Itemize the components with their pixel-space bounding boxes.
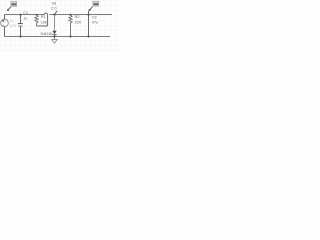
junction bottom of D1 bbox=[53, 35, 55, 37]
diode D1 bbox=[52, 15, 56, 37]
value label V1 bbox=[9, 19, 14, 23]
junction top of D1 bbox=[53, 14, 55, 16]
label R2 bbox=[75, 15, 80, 19]
probe flag PWR (left) bbox=[7, 1, 17, 11]
label OUT bbox=[92, 15, 97, 19]
svg-text:2.0: 2.0 bbox=[51, 7, 56, 11]
value label D1 bbox=[40, 32, 52, 36]
label R1 bbox=[41, 15, 46, 19]
probe flag OUT (right) bbox=[89, 1, 99, 11]
wire riser under hop bbox=[47, 15, 49, 26]
value label R2 bbox=[75, 20, 81, 24]
svg-text:V1: V1 bbox=[9, 19, 14, 23]
junction bottom of R2 bbox=[69, 35, 71, 37]
label VD bbox=[52, 1, 57, 5]
label C1 bbox=[23, 11, 28, 15]
value label C1 bbox=[23, 16, 27, 20]
wire top rail right segment bbox=[49, 14, 112, 16]
junction top of C1 bbox=[19, 14, 21, 16]
svg-text:220: 220 bbox=[75, 20, 81, 24]
wire output branch bbox=[88, 11, 90, 37]
svg-text:Vd: Vd bbox=[52, 1, 57, 5]
voltage source V1 bbox=[1, 15, 9, 37]
wire hop over top rail bbox=[44, 13, 47, 15]
svg-text:R2: R2 bbox=[75, 15, 80, 19]
svg-text:1N4148: 1N4148 bbox=[40, 32, 52, 36]
probe tick at node VD bbox=[55, 11, 58, 15]
svg-text:47u: 47u bbox=[92, 20, 98, 24]
resistor R1 bbox=[35, 15, 38, 26]
value label R1 bbox=[41, 20, 47, 24]
value label OUT bbox=[92, 20, 98, 24]
junction bottom of C1 bbox=[19, 35, 21, 37]
junction top of R2 bbox=[70, 14, 72, 16]
resistor R2 bbox=[69, 15, 72, 37]
svg-text:C1: C1 bbox=[23, 11, 28, 15]
svg-text:R1: R1 bbox=[41, 15, 46, 19]
capacitor C1 bbox=[18, 15, 23, 37]
junction output top bbox=[87, 14, 89, 16]
junction top of R1 bbox=[36, 14, 38, 16]
wire bottom rail bbox=[5, 36, 111, 38]
value label V1 second line bbox=[9, 24, 16, 28]
svg-text:C2: C2 bbox=[92, 15, 97, 19]
ground bbox=[52, 37, 58, 43]
junction output bottom bbox=[87, 35, 89, 37]
value label VD bbox=[51, 7, 56, 11]
wire top rail left segment bbox=[5, 14, 45, 16]
svg-text:10k: 10k bbox=[41, 20, 47, 24]
wire from R1 bottom to vertical riser bbox=[37, 25, 48, 27]
svg-text:1u: 1u bbox=[23, 16, 27, 20]
svg-text:12V: 12V bbox=[9, 24, 16, 28]
